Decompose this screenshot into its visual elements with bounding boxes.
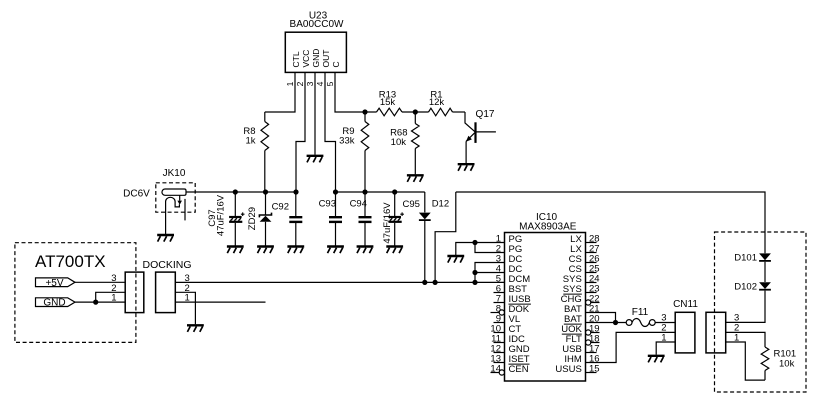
svg-text:10k: 10k: [779, 358, 795, 369]
node C93 rail junction: [333, 189, 338, 194]
svg-text:JK10: JK10: [163, 168, 186, 179]
JK10 switch arrow: [177, 195, 182, 205]
IC10 pin 13 label ISET: [509, 354, 530, 365]
wire IC10 pins 1-2 PG to ground: [456, 243, 505, 256]
label DC6V: [123, 189, 150, 200]
ground ZD29: [257, 247, 274, 254]
connector JK10 DC jack dashed box: [156, 183, 195, 212]
U23 pin number 1: [285, 81, 295, 86]
svg-text:47uF/16V: 47uF/16V: [382, 202, 393, 244]
node GND junction dot: [93, 300, 98, 305]
IC10 pin number 3: [496, 254, 501, 265]
capacitor C94: [359, 192, 372, 246]
IC10 pin number 13: [490, 354, 501, 365]
ground CN11 pin1: [648, 356, 665, 363]
svg-text:OUT: OUT: [321, 50, 331, 68]
U23 pin number 3: [305, 81, 315, 86]
wire U23 pin2 VCC jog down to input rail: [296, 72, 305, 192]
node C95 rail junction: [392, 189, 397, 194]
wire IC10 pin 24 stub: [586, 282, 597, 284]
node GND flag: [36, 298, 76, 309]
ground R68: [407, 175, 424, 182]
wire IC10 pin 11 stub: [494, 342, 505, 344]
IC10 pin 18 label FLT: [566, 334, 582, 345]
svg-text:1: 1: [111, 293, 116, 304]
wire top net to battery diodes: [456, 192, 765, 253]
svg-text:3: 3: [305, 81, 315, 86]
label D101: [734, 253, 757, 264]
DOCKING right pin numbers 3 2 1: [185, 273, 190, 304]
U23 pin name VCC: [301, 50, 311, 68]
diode D102: [726, 282, 771, 322]
IC10 pin 2 label PG: [509, 244, 523, 255]
svg-text:MAX8903AE: MAX8903AE: [519, 221, 577, 232]
connector DOCKING right half: [156, 272, 176, 313]
svg-text:12k: 12k: [429, 97, 445, 108]
IC10 pin number 1: [496, 234, 501, 245]
IC10 pin 8 bubble and stub: [491, 310, 505, 315]
IC10 pin number 6: [496, 284, 501, 295]
wire IC10 pins 3-4-5 DC tie: [475, 263, 505, 283]
connector DOCKING left half: [125, 272, 144, 313]
node C92 rail junction: [293, 189, 298, 194]
svg-text:D12: D12: [432, 198, 449, 209]
svg-text:33k: 33k: [339, 136, 355, 147]
node DC pin4 junction: [472, 270, 477, 275]
ground docking pin2: [187, 325, 204, 332]
CN11 right pin numbers 3 2 1: [734, 313, 739, 344]
resistor R101: [761, 347, 769, 380]
svg-text:Q17: Q17: [476, 109, 495, 120]
IC10 pin 15 label USUS: [555, 364, 581, 375]
node R9 top junction: [362, 109, 367, 114]
capacitor C95 electrolytic: [389, 192, 404, 246]
svg-text:1k: 1k: [245, 136, 255, 147]
IC10 pin 1 label PG: [509, 234, 523, 245]
wire CN11 right pin2 to R101: [726, 332, 765, 347]
IC10 pin number 27: [589, 244, 600, 255]
node R68 top junction: [413, 109, 418, 114]
IC10 pin number 26: [589, 254, 600, 265]
IC10 pin number 14: [490, 364, 501, 375]
svg-text:VCC: VCC: [301, 50, 311, 68]
ground C92: [287, 247, 304, 254]
wire output rail C93 to D12: [336, 191, 425, 193]
wire IC10 pin 23 stub: [586, 292, 597, 294]
ground JK10 sleeve: [157, 235, 174, 242]
wire IC10 pin 7 stub: [494, 302, 505, 304]
IC10 pin number 9: [496, 314, 501, 325]
svg-text:C94: C94: [350, 199, 367, 210]
label R9 33k: [339, 126, 355, 147]
label AT700TX: [35, 252, 106, 271]
connector CN11 right half: [706, 312, 726, 353]
svg-text:4: 4: [315, 81, 325, 86]
wire L-path from top net down to DCM net: [435, 192, 456, 282]
IC10 pin 14 bubble and stub: [491, 370, 505, 375]
wire docking right pin2 to ground: [175, 292, 195, 324]
node DCM pin5 junction: [472, 280, 477, 285]
svg-text:10k: 10k: [391, 137, 407, 148]
label D102: [734, 282, 757, 293]
IC10 pin number 21: [589, 304, 600, 315]
IC10 pin 10 label CT: [509, 324, 522, 335]
label JK10: [163, 168, 186, 179]
IC10 pin 9 label VL: [509, 314, 521, 325]
wire DOCKING pin3 to IC10 DCM: [175, 281, 504, 283]
IC10 pin 19 bubble and stub: [586, 330, 600, 335]
wire IC10 pin 13 stub: [494, 362, 505, 364]
resistor R13: [377, 108, 429, 116]
svg-text:DC6V: DC6V: [123, 189, 150, 200]
ground C94: [357, 247, 374, 254]
diode D12: [419, 192, 431, 282]
DOCKING left pin numbers 3 2 1: [111, 273, 116, 304]
label 47uF/16V of C95: [382, 202, 393, 244]
wire IC10 pin20 BAT to fuse: [586, 322, 627, 324]
label Q17: [476, 109, 495, 120]
svg-text:C92: C92: [272, 202, 289, 213]
U23 pin name GND: [311, 49, 321, 68]
label BA00CC0W: [290, 19, 344, 30]
wire U23 pin3 GND down: [314, 72, 316, 154]
diode D101: [759, 253, 771, 282]
U23 pin number 2: [295, 81, 305, 86]
IC10 pin 22 bubble and stub: [586, 300, 600, 305]
IC10 pin number 28: [589, 234, 600, 245]
wire IC10 pin16 IHM to CN11 pin2: [586, 332, 676, 362]
battery pack dashed box: [715, 232, 807, 392]
label C93: [319, 199, 336, 210]
node PG tie junction: [472, 240, 477, 245]
label C94: [350, 199, 367, 210]
label IC10: [536, 212, 558, 223]
wire U23 pin5 C down-right to R9/R13: [335, 72, 377, 112]
label C95: [403, 199, 420, 210]
node +5V flag: [36, 278, 76, 289]
svg-text:CEN: CEN: [509, 364, 529, 375]
U23 pin name OUT: [321, 50, 331, 68]
label R8 1k: [243, 126, 255, 147]
svg-text:1: 1: [285, 81, 295, 86]
wire IC10 pin 9 stub: [494, 322, 505, 324]
label R1 12k: [429, 90, 445, 109]
label R68 10k: [390, 128, 407, 149]
ground C93: [327, 247, 344, 254]
wire IC10 pin21 BAT to fuse node: [586, 313, 616, 323]
IC10 pin 24 label SYS: [563, 274, 582, 285]
IC10 pin 28 label LX: [570, 234, 582, 245]
wire IC10 pin 26 stub: [586, 262, 597, 264]
svg-text:2: 2: [295, 81, 305, 86]
svg-text:15k: 15k: [380, 97, 396, 108]
IC10 pin number 15: [589, 364, 600, 375]
node ZD29 rail junction: [263, 189, 268, 194]
U23 pin number 4: [315, 81, 325, 86]
resistor R1: [429, 108, 466, 116]
fuse F11: [626, 319, 675, 327]
IC10 pin number 11: [491, 334, 501, 345]
label F11: [632, 307, 649, 318]
resistor R9: [361, 112, 369, 192]
svg-text:CTL: CTL: [291, 51, 301, 67]
label R13 15k: [379, 90, 396, 109]
resistor R68: [412, 112, 420, 174]
IC10 pin number 10: [490, 324, 501, 335]
wire IC10 pin 28 stub: [586, 242, 597, 244]
label CN11: [673, 299, 698, 310]
IC10 pin number 17: [589, 344, 600, 355]
IC10 pin number 5: [496, 274, 501, 285]
wire U23 pin1 CTL down-left to R8: [265, 72, 295, 112]
wire IC10 pin 27 stub: [586, 252, 597, 254]
node L-path junction: [433, 280, 438, 285]
connector CN11 left half: [675, 312, 695, 353]
op-amp U1 : charger IC10 MAX8903AE box: [505, 233, 586, 382]
label R101 10k: [774, 348, 797, 369]
resistor R8: [261, 112, 269, 192]
capacitor C92: [289, 192, 302, 246]
svg-text:USUS: USUS: [555, 364, 581, 375]
wire IC10 pin 10 stub: [494, 332, 505, 334]
svg-text:C: C: [331, 61, 341, 67]
ground C97: [227, 247, 244, 254]
IC10 pin number 16: [589, 354, 600, 365]
IC10 pin number 2: [496, 244, 501, 255]
U23 pin number 5: [325, 81, 335, 86]
CN11 left pin numbers 3 2 1: [661, 313, 666, 344]
IC10 pin number 12: [490, 344, 501, 355]
svg-text:47uF/16V: 47uF/16V: [216, 194, 227, 236]
node BAT junction: [613, 320, 618, 325]
svg-text:BA00CC0W: BA00CC0W: [290, 19, 344, 30]
wire IC10 pin 12 stub: [494, 352, 505, 354]
wire docking pin2 jog to GND net: [96, 292, 126, 302]
IC10 pin 11 label IDC: [509, 334, 526, 345]
svg-text:+5V: +5V: [45, 278, 63, 289]
capacitor C93: [329, 192, 342, 246]
IC10 pin 16 label IHM: [564, 354, 582, 365]
label C92: [272, 202, 289, 213]
IC10 pin 27 label LX: [570, 244, 582, 255]
IC10 pin number 8: [496, 304, 501, 315]
IC10 pin number 23: [589, 284, 600, 295]
wire CN11 pin1 to ground: [656, 342, 675, 355]
node C94 rail junction: [362, 189, 367, 194]
JK10 NC pin stub: [184, 199, 186, 221]
node C97 rail junction: [233, 189, 238, 194]
wire input rail from jack to C92 node: [186, 191, 296, 193]
IC10 pin number 18: [589, 334, 600, 345]
IC10 pin 26 label CS: [569, 254, 582, 265]
IC10 pin 5 label DCM: [509, 274, 531, 285]
label ZD29: [247, 207, 258, 230]
IC10 pin 21 label BAT: [564, 304, 582, 315]
IC10 pin number 22: [589, 294, 600, 305]
IC10 pin number 19: [589, 324, 600, 335]
svg-text:GND: GND: [311, 49, 321, 68]
ground U23 pin3: [307, 156, 324, 163]
IC10 pin 12 label GND: [509, 344, 530, 355]
IC10 pin number 4: [496, 264, 501, 275]
svg-text:GND: GND: [43, 298, 65, 309]
svg-text:ZD29: ZD29: [247, 207, 258, 230]
IC10 pin 25 label CS: [569, 264, 582, 275]
IC10 pin number 24: [589, 274, 600, 285]
label DOCKING: [143, 259, 192, 271]
wire +5V to docking pin3: [75, 281, 125, 283]
label C97 47uF/16V: [207, 194, 227, 236]
svg-text:AT700TX: AT700TX: [35, 252, 106, 271]
label MAX8903AE: [519, 221, 577, 232]
JK10 barrel sleeve: [162, 189, 186, 195]
wire GND to docking pin1: [75, 301, 125, 303]
svg-text:CN11: CN11: [673, 299, 698, 310]
wire CN11 right pin1 to R101 bottom: [726, 342, 765, 380]
JK10 center pin contact: [166, 197, 180, 234]
wire IC10 pin 6 stub: [494, 292, 505, 294]
IC10 pin 23 label SYS: [563, 284, 582, 295]
label D12: [432, 198, 449, 209]
IC10 pin number 20: [589, 314, 600, 325]
svg-text:D101: D101: [734, 253, 757, 264]
U23 pin name C: [331, 61, 341, 67]
IC10 pin number 25: [589, 264, 600, 275]
capacitor C97 electrolytic: [229, 192, 244, 246]
IC10 pin 20 label BAT: [564, 314, 582, 325]
op-amp U1 : regulator U23 BA00CC0W box: [285, 32, 346, 72]
wire U23 pin4 OUT jog down to output rail: [325, 72, 336, 192]
ground IC10 PG: [447, 256, 464, 263]
wire docking right pin1 stub: [175, 301, 265, 303]
AT700TX dashed box: [15, 243, 136, 343]
wire IC10 pin 17 stub: [586, 352, 597, 354]
node D12 bottom junction: [422, 280, 427, 285]
transistor Q17: [465, 112, 496, 163]
svg-text:F11: F11: [632, 307, 649, 318]
IC10 pin 22 label CHG: [561, 294, 582, 305]
ground Q17 emitter: [458, 164, 475, 171]
IC10 pin 14 label CEN: [509, 364, 529, 375]
IC10 pin 3 label DC: [509, 254, 523, 265]
U23 pin name CTL: [291, 51, 301, 67]
wire IC10 pin 25 stub: [586, 272, 597, 274]
svg-text:D102: D102: [734, 282, 757, 293]
svg-text:C95: C95: [403, 199, 420, 210]
IC10 pin 17 label USB: [562, 344, 582, 355]
IC10 pin 6 label BST: [509, 284, 528, 295]
diode ZD29 zener: [259, 192, 271, 246]
label U23: [309, 11, 328, 22]
ground C95: [386, 247, 403, 254]
svg-text:DOCKING: DOCKING: [143, 259, 192, 271]
IC10 pin number 7: [496, 294, 501, 305]
wire IC10 pin 15 stub: [586, 372, 597, 374]
IC10 pin 19 label UOK: [561, 324, 582, 335]
IC10 pin 4 label DC: [509, 264, 523, 275]
svg-text:C93: C93: [319, 199, 336, 210]
IC10 pin 8 label DOK: [509, 304, 530, 315]
svg-text:5: 5: [325, 81, 335, 86]
IC10 pin 7 label IUSB: [509, 294, 531, 305]
IC10 pin 18 bubble and stub: [586, 340, 600, 345]
